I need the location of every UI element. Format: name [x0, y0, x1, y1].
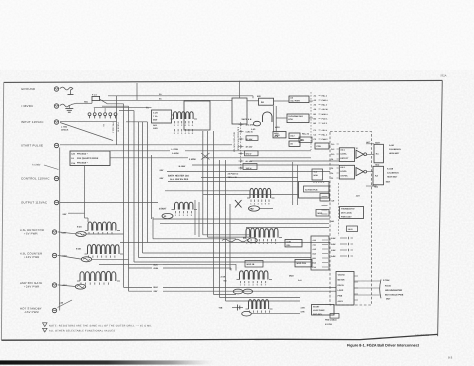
svg-text:OUTPUT 115VAC: OUTPUT 115VAC [21, 201, 47, 205]
svg-text:PB2 CABLE: PB2 CABLE [325, 319, 337, 322]
svg-text:MOD: MOD [314, 174, 319, 177]
svg-text:FG2A/1981: FG2A/1981 [416, 334, 430, 337]
svg-text:R-100: R-100 [385, 285, 392, 288]
svg-text:LEVEL: LEVEL [340, 170, 347, 173]
svg-text:8-3: 8-3 [448, 356, 453, 360]
svg-text:FWD: FWD [153, 127, 158, 130]
svg-text:P/N 4015 *: P/N 4015 * [77, 162, 88, 165]
svg-text:B11: B11 [313, 257, 316, 260]
svg-text:24V: 24V [160, 177, 164, 180]
svg-text:BLK: BLK [154, 286, 159, 289]
svg-text:24V: 24V [160, 169, 164, 172]
svg-text:A-5R: A-5R [389, 144, 394, 147]
svg-text:P/N 4012 *: P/N 4012 * [77, 152, 88, 155]
svg-text:HIGH MOT: HIGH MOT [389, 152, 400, 155]
svg-text:A1W: A1W [331, 237, 336, 240]
svg-text:1R4 1RW: 1R4 1RW [246, 124, 254, 127]
svg-text:A 4RW: A 4RW [172, 152, 179, 155]
svg-text:C2A: C2A [71, 162, 76, 165]
svg-text:+12V PWR: +12V PWR [24, 255, 40, 259]
svg-text:P/N 4013 2: P/N 4013 2 [112, 123, 115, 134]
svg-text:A3W: A3W [331, 249, 336, 252]
svg-text:PWB 2: PWB 2 [322, 138, 328, 141]
svg-text:START PULSE: START PULSE [21, 144, 43, 148]
svg-text:TB2A 4 W: TB2A 4 W [228, 176, 237, 179]
svg-text:2 4RW: 2 4RW [189, 158, 197, 161]
svg-text:ST-PAK: ST-PAK [340, 174, 348, 177]
svg-text:5W: 5W [224, 280, 227, 283]
svg-text:5-3B: 5-3B [287, 241, 292, 244]
svg-text:REL A2: REL A2 [302, 133, 310, 136]
svg-text:SEL FUNCTION W3: SEL FUNCTION W3 [233, 132, 236, 153]
svg-text:A5 PCB 5-2: A5 PCB 5-2 [228, 173, 240, 176]
svg-text:GRN: GRN [154, 267, 159, 270]
svg-text:MOD: MOD [274, 132, 279, 135]
svg-text:DELTA: DELTA [338, 284, 345, 287]
svg-text:REL 2: REL 2 [322, 104, 327, 107]
svg-text:5W: 5W [102, 124, 105, 127]
svg-text:STR: STR [301, 310, 306, 313]
svg-text:LEVEL: LEVEL [340, 153, 347, 156]
svg-text:A11: A11 [313, 243, 316, 246]
svg-text:PCB: PCB [317, 145, 322, 148]
svg-text:ASSY: ASSY [338, 300, 344, 303]
svg-text:PULSE IN: PULSE IN [117, 123, 120, 133]
svg-text:2: 2 [44, 330, 45, 333]
svg-text:PCB A: PCB A [322, 118, 328, 121]
svg-text:24V: 24V [154, 290, 158, 293]
svg-text:INPUT 115VAC: INPUT 115VAC [21, 120, 44, 124]
svg-text:NOTE: RESISTORS ARE THE SAME: NOTE: RESISTORS ARE THE SAME ALL OF THE … [49, 324, 152, 327]
svg-text:+48VDC: +48VDC [21, 104, 34, 108]
svg-text:PCB: PCB [288, 118, 293, 121]
svg-text:50W: 50W [153, 119, 157, 122]
svg-text:DET LOGIC: DET LOGIC [341, 212, 352, 215]
svg-text:METER: METER [338, 279, 346, 282]
svg-text:A2W: A2W [331, 243, 336, 246]
svg-text:4R 10W: 4R 10W [246, 146, 253, 149]
svg-text:6R 10W: 6R 10W [246, 160, 253, 163]
svg-text:SECR E B: SECR E B [242, 118, 252, 121]
svg-text:24V: 24V [63, 213, 67, 216]
svg-text:5A: 5A [261, 101, 264, 104]
svg-text:LOOP: LOOP [338, 289, 344, 292]
svg-text:B12: B12 [313, 261, 316, 264]
svg-text:MOT: MOT [386, 297, 391, 300]
svg-text:TLC: TLC [314, 171, 318, 174]
svg-text:PWB ASSY: PWB ASSY [341, 215, 352, 218]
svg-text:5-2A: 5-2A [77, 225, 82, 228]
svg-text:GROUNDWATER: GROUNDWATER [385, 289, 403, 292]
svg-text:CHECK: CHECK [61, 128, 69, 131]
svg-text:+5V PWR: +5V PWR [24, 232, 38, 236]
svg-text:C10: C10 [331, 153, 334, 156]
svg-text:ALL OTHER SELECTABLE FUNCTIO: ALL OTHER SELECTABLE FUNCTIONAL VALUES [49, 330, 115, 333]
svg-text:5R4 W: 5R4 W [246, 153, 252, 156]
svg-text:START: START [313, 306, 320, 309]
svg-text:5W R: 5W R [348, 228, 353, 231]
svg-text:A4W: A4W [331, 255, 336, 258]
svg-text:A1R: A1R [331, 199, 335, 202]
svg-text:C6: C6 [331, 167, 333, 170]
svg-text:REL A: REL A [322, 134, 328, 137]
svg-text:T 1A: T 1A [153, 115, 158, 118]
svg-text:RED: RED [84, 101, 89, 104]
svg-text:TAC 2: TAC 2 [322, 122, 327, 125]
svg-text:LOOP PUMP: LOOP PUMP [313, 309, 325, 312]
svg-text:A4R: A4R [356, 195, 360, 198]
svg-text:MOD: MOD [275, 126, 280, 129]
svg-text:A 1R: A 1R [153, 111, 158, 114]
svg-text:START: START [159, 208, 167, 211]
svg-text:Figure 8-1. FG2A Ball Driver I: Figure 8-1. FG2A Ball Driver Interconnec… [347, 344, 420, 348]
svg-text:+24V PWR: +24V PWR [24, 285, 40, 289]
svg-text:A6 FWD PCB: A6 FWD PCB [305, 188, 318, 191]
svg-text:MOD 4: MOD 4 [322, 113, 329, 116]
svg-text:A-5R: A-5R [221, 276, 226, 279]
svg-text:TACHOMETER: TACHOMETER [288, 115, 303, 118]
svg-text:B 4RW: B 4RW [179, 165, 186, 168]
svg-text:BLK: BLK [154, 263, 159, 266]
svg-text:MOD: MOD [289, 275, 294, 278]
svg-text:TACHO-: TACHO- [338, 273, 346, 276]
svg-text:MOD: MOD [318, 212, 323, 215]
svg-text:DETECT: DETECT [340, 157, 349, 160]
svg-text:MOT: MOT [375, 142, 380, 145]
svg-text:F 1 A: F 1 A [92, 93, 97, 96]
svg-text:CONTROL 115VAC: CONTROL 115VAC [21, 177, 50, 181]
svg-text:FG2 QUARTZ DRIVE: FG2 QUARTZ DRIVE [77, 157, 99, 160]
svg-text:CALIBRATE: CALIBRATE [387, 172, 399, 175]
svg-text:R 7RW: R 7RW [383, 279, 390, 282]
svg-text:A12: A12 [313, 248, 316, 251]
svg-text:C10: C10 [313, 266, 316, 269]
svg-text:5-1B: 5-1B [76, 248, 81, 251]
svg-text:FWD REV: FWD REV [313, 313, 323, 316]
svg-text:B10: B10 [313, 252, 316, 255]
svg-text:C15: C15 [331, 143, 334, 146]
svg-text:-15V PWR: -15V PWR [24, 310, 39, 314]
svg-text:C8: C8 [331, 158, 333, 161]
svg-text:L TM4: L TM4 [61, 125, 68, 128]
svg-text:BATH HEATER 10A: BATH HEATER 10A [168, 174, 189, 177]
svg-text:T5B: T5B [219, 307, 223, 310]
svg-text:A 4.98V: A 4.98V [32, 164, 41, 167]
svg-text:PWB: PWB [338, 295, 343, 298]
svg-text:4 5R: 4 5R [301, 307, 306, 310]
svg-text:THERMOSTAT: THERMOSTAT [341, 208, 355, 211]
svg-text:K-1N8: K-1N8 [387, 168, 394, 171]
svg-text:C12: C12 [331, 148, 334, 151]
svg-text:L 7RW: L 7RW [172, 148, 178, 151]
svg-text:MOD PCB: MOD PCB [297, 262, 307, 265]
svg-text:782A: 782A [440, 74, 447, 78]
svg-text:A10: A10 [313, 239, 316, 242]
svg-text:MOD 5B: MOD 5B [247, 263, 255, 266]
svg-text:ADJ PWR: ADJ PWR [290, 99, 300, 102]
svg-text:C2: C2 [331, 177, 333, 180]
svg-text:PCB: PCB [274, 135, 279, 138]
svg-text:BOX ANGLE PWB: BOX ANGLE PWB [385, 293, 404, 296]
svg-text:PWR A: PWR A [322, 99, 329, 102]
svg-text:IF PCB: IF PCB [325, 323, 332, 326]
svg-text:ADJ W: ADJ W [322, 108, 328, 111]
svg-text:48V: 48V [257, 95, 261, 98]
svg-text:C1R4 W: C1R4 W [246, 131, 253, 134]
svg-text:CALIBRATE: CALIBRATE [389, 148, 401, 151]
svg-text:MOT: MOT [386, 180, 391, 183]
svg-text:GROUND: GROUND [21, 87, 35, 91]
svg-text:ALL 10W 5% RES: ALL 10W 5% RES [170, 178, 189, 181]
svg-text:1: 1 [44, 324, 45, 327]
svg-text:HIGH MOT: HIGH MOT [387, 176, 398, 179]
